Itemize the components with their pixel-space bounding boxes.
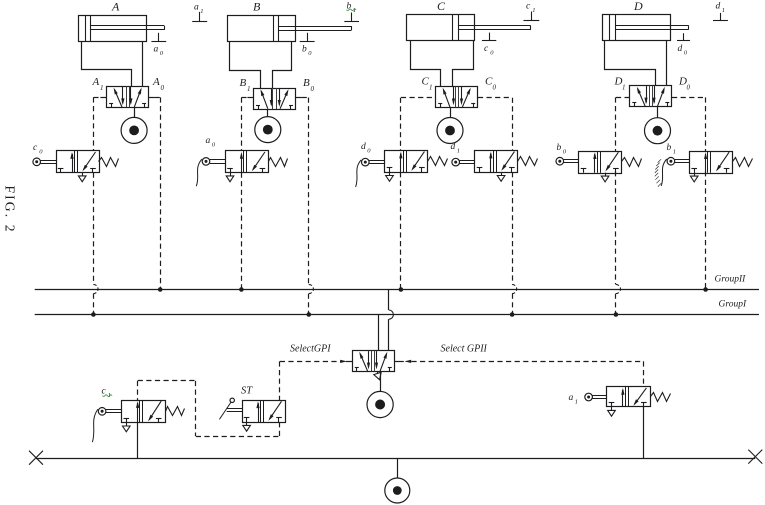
bus GroupI (35, 314, 759, 316)
svg-text:b: b (557, 143, 562, 153)
pilot line C1 lower (dashed) (400, 172, 402, 289)
cylinder B body (228, 16, 296, 42)
svg-text:A: A (92, 76, 100, 88)
hop B0 over GroupII (309, 284, 314, 293)
pilot line B0 to GroupI (dashed) (308, 294, 310, 315)
squiggle under c1 label (103, 395, 113, 397)
svg-text:A: A (152, 76, 160, 88)
svg-text:GroupII: GroupII (715, 275, 747, 285)
supply line valve A (134, 107, 136, 117)
junction dot B0-GroupI (307, 312, 312, 317)
rail supply line (397, 458, 399, 478)
junction dot A1-GroupI (91, 312, 96, 317)
svg-text:B: B (240, 77, 247, 89)
cylinder B rod (279, 26, 352, 28)
pilot stub C1 (dashed) (401, 97, 436, 99)
svg-text:a: a (569, 393, 574, 403)
junction dot A0-GroupII (158, 287, 163, 292)
svg-text:1: 1 (457, 147, 460, 154)
roller d1 (452, 158, 460, 166)
svg-text:1: 1 (100, 84, 104, 92)
rail end X right (748, 450, 762, 464)
whisker b1 (661, 159, 667, 186)
roller c0 (33, 158, 41, 166)
lever ST stem (227, 408, 242, 410)
pilot line C0 to GroupI (dashed) (512, 294, 514, 315)
pilot line C0 lower (dashed) (512, 172, 514, 284)
pilot line D1 to GroupI (dashed) (615, 294, 617, 315)
svg-text:1: 1 (429, 84, 433, 92)
svg-text:A: A (111, 0, 120, 14)
svg-text:Select GPII: Select GPII (441, 344, 488, 355)
svg-text:1: 1 (532, 7, 535, 14)
cylinder C body (407, 15, 475, 41)
limit marker c1 (531, 12, 533, 21)
roller b1 (667, 157, 675, 165)
supply line valve C (450, 108, 452, 118)
svg-text:1: 1 (108, 392, 111, 399)
valve b1 3/2 (690, 152, 733, 174)
dashed chain bottom horizontal (196, 436, 280, 438)
arrow SelectGPI (340, 360, 347, 363)
pilot stub A0 (149, 97, 155, 99)
pilot line A1 to GroupI (dashed) (93, 294, 95, 315)
cylinder C rod (458, 25, 531, 27)
feed GroupI to selector (378, 315, 380, 351)
roller a1 (585, 393, 593, 401)
supply source valve B (255, 117, 281, 143)
valve a0 3/2 (226, 151, 269, 173)
line a1 to manifold rail (643, 407, 645, 458)
pilot line a1 to SelectGPII (dashed) (643, 361, 645, 387)
pilot stub B0 (296, 97, 302, 99)
pilot line c1 up (dashed) (137, 381, 139, 400)
cylinder A piston (85, 15, 87, 41)
wire B cap-side (230, 42, 261, 89)
dashed line SelectGPII (411, 361, 644, 363)
whisker c1 (92, 409, 98, 442)
supply source valve A (121, 117, 147, 143)
dashed chain right vertical (195, 381, 197, 436)
svg-text:b: b (302, 45, 307, 55)
valve A 5/2 (107, 87, 149, 108)
svg-text:D: D (633, 0, 643, 13)
svg-text:0: 0 (687, 84, 691, 92)
wire B rod-side (273, 42, 292, 89)
line c1 to manifold rail (137, 423, 139, 459)
svg-text:C: C (437, 0, 446, 13)
svg-text:B: B (253, 0, 261, 14)
svg-text:1: 1 (247, 85, 251, 93)
junction dot D0-GroupII (703, 287, 708, 292)
limit marker a0 (158, 33, 160, 41)
whisker d0 (356, 160, 362, 187)
junction dot C1-GroupII (399, 287, 404, 292)
lever ST arm (219, 402, 231, 420)
roller a0 (202, 158, 210, 166)
svg-text:1: 1 (575, 398, 578, 405)
selector supply source (367, 391, 393, 417)
svg-text:FIG. 2: FIG. 2 (3, 186, 18, 234)
manifold rail (36, 458, 755, 460)
roller b0 (556, 157, 564, 165)
pilot line D0 lower (dashed) (705, 171, 707, 289)
limit marker b1 (351, 13, 353, 22)
pilot line A0 (dashed) (160, 97, 162, 289)
feed GroupII to selector upper (388, 290, 390, 310)
dashed chain into ST bottom (279, 422, 281, 436)
supply line valve D (657, 107, 659, 118)
selector valve 5/2 (353, 351, 395, 372)
junction dot B1-GroupII (239, 287, 244, 292)
valve a1 3/2 (607, 387, 651, 407)
svg-text:b: b (667, 143, 672, 153)
junction dot C0-GroupI (510, 312, 515, 317)
svg-text:d: d (361, 142, 366, 152)
lever ST knob (230, 398, 234, 402)
hop A1 over GroupII (93, 284, 98, 293)
svg-text:d: d (678, 44, 683, 54)
pilot line D1 upper (dashed) (615, 97, 617, 151)
svg-text:d: d (451, 142, 456, 152)
cylinder D body (603, 15, 671, 41)
svg-text:a: a (206, 136, 211, 146)
pilot line D1 lower (dashed) (615, 171, 617, 284)
roller c1 (98, 408, 106, 416)
hop D1 over GroupII (616, 284, 621, 293)
svg-text:SelectGPI: SelectGPI (290, 344, 331, 355)
valve c1 3/2 (122, 401, 166, 423)
svg-text:0: 0 (493, 84, 497, 92)
wire C rod-side (453, 41, 474, 87)
pilot line D0 upper (dashed) (705, 97, 707, 151)
valve d0 3/2 (385, 151, 428, 173)
junction dot D1-GroupI (614, 312, 619, 317)
limit marker d0 (683, 33, 685, 40)
wire D cap-side (605, 41, 656, 86)
valve b0 3/2 (579, 152, 622, 174)
valve D 5/2 (630, 86, 672, 107)
valve d1 3/2 (475, 151, 518, 173)
valve c0 3/2 (57, 151, 100, 173)
pilot stub A1 (100, 97, 106, 99)
svg-text:GroupI: GroupI (719, 300, 747, 310)
selector supply line (380, 372, 382, 392)
limit marker b0 (307, 33, 309, 42)
svg-text:B: B (303, 77, 310, 89)
whisker a0 (196, 159, 202, 186)
cylinder A body (79, 16, 147, 42)
cylinder D rod (616, 25, 689, 27)
pilot stub B1 (247, 97, 253, 99)
valve B 5/2 (254, 89, 296, 110)
svg-text:1: 1 (200, 8, 203, 15)
squiggle under b1 (347, 9, 357, 11)
bus GroupII (35, 289, 759, 291)
valve ST 3/2 (243, 401, 286, 423)
pilot stub SelectGPII (395, 361, 404, 363)
pilot stub SelectGPI (346, 361, 352, 363)
pilot line C0 upper (dashed) (512, 98, 514, 151)
pilot line ST up (dashed) (279, 361, 281, 400)
rail supply source (385, 478, 410, 503)
wire C cap-side (411, 41, 441, 87)
svg-text:ST: ST (241, 386, 253, 397)
wire D rod-side (666, 40, 668, 85)
arrow SelectGPII (404, 360, 411, 363)
valve C 5/2 (436, 87, 478, 108)
wire A rod-side (142, 41, 144, 86)
svg-text:1: 1 (673, 148, 676, 155)
pilot line C1 upper (dashed) (400, 98, 402, 151)
cylinder B piston (273, 15, 275, 41)
cylinder C piston (452, 15, 454, 41)
svg-text:a: a (194, 3, 199, 13)
wire A cap-side (82, 42, 132, 87)
feed GroupII to selector lower (388, 319, 390, 350)
hop selector feed over GroupI (389, 310, 394, 319)
dashed chain top horizontal (138, 380, 196, 382)
pilot stub C0 (dashed) (478, 97, 512, 99)
limit marker d1 (720, 13, 722, 21)
selector exhaust (377, 372, 379, 374)
svg-text:1: 1 (622, 84, 626, 92)
supply source valve C (437, 118, 463, 144)
svg-text:1: 1 (722, 7, 725, 14)
pilot line B1 lower (dashed) (241, 173, 243, 290)
limit marker c0 (489, 33, 491, 41)
pilot line B1 upper (dashed) (241, 98, 243, 152)
pilot stub D0 (dashed) (672, 97, 706, 99)
pilot stub D1 (dashed) (616, 97, 630, 99)
cylinder D piston (609, 15, 611, 41)
roller d0 (362, 158, 370, 166)
pilot line A1 upper (dashed) (93, 97, 95, 151)
dashed line SelectGPI (280, 361, 341, 363)
svg-text:a: a (154, 45, 159, 55)
hop C0 over GroupII (512, 284, 517, 293)
rail end X left (29, 451, 43, 465)
svg-text:0: 0 (311, 85, 315, 93)
svg-text:d: d (716, 2, 721, 12)
supply source valve D (645, 118, 671, 144)
pilot line A1 lower (dashed) (93, 173, 95, 285)
limit marker a1 (199, 12, 201, 22)
pilot line B0 (dashed) (308, 98, 310, 285)
svg-text:0: 0 (161, 84, 165, 92)
cylinder A rod (91, 25, 164, 27)
supply line valve B (267, 109, 269, 117)
